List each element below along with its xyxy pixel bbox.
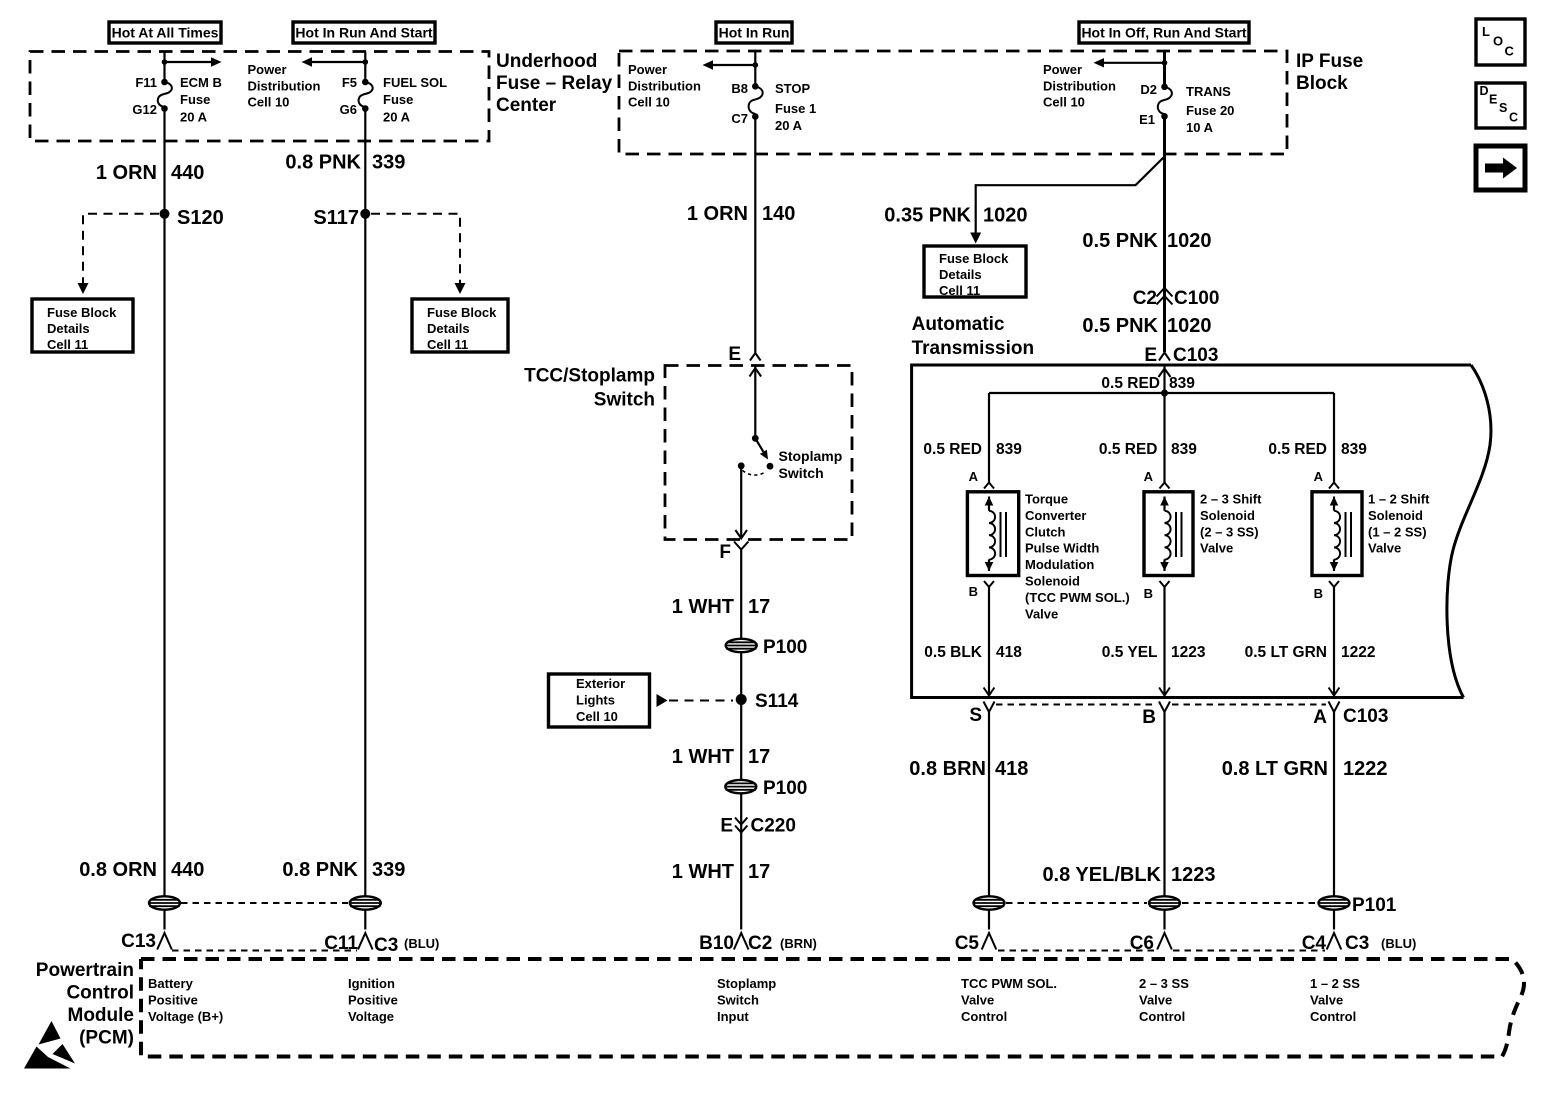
pin C13 at PCM [121,931,172,952]
label torque converter clutch solenoid [1025,492,1130,622]
svg-text:C11: C11 [324,933,358,954]
svg-text:Cell 10: Cell 10 [628,95,670,110]
svg-text:2 – 3 SS: 2 – 3 SS [1139,976,1189,991]
svg-text:Power: Power [248,62,287,77]
fuse STOP B8/C7 [731,81,816,133]
svg-text:Exterior: Exterior [576,676,625,691]
wire TCC solenoid return [984,587,995,696]
svg-text:0.5 LT GRN: 0.5 LT GRN [1245,644,1327,661]
svg-text:E: E [1144,345,1157,366]
svg-text:P100: P100 [763,637,807,658]
svg-text:L: L [1482,24,1490,39]
solenoid 1-2 shift coil [1312,492,1362,576]
node tap arrow left on W4 [1094,58,1168,67]
svg-text:Lights: Lights [576,693,615,708]
svg-text:Valve: Valve [1025,606,1058,621]
wire label 0.8 BRN 418 [909,758,1028,780]
wire 2-3 solenoid return [1159,587,1170,696]
svg-text:E: E [1489,93,1497,107]
TCC/Stoplamp switch dashed box [665,366,852,540]
svg-text:Clutch: Clutch [1025,524,1066,539]
bus inside transmission [989,390,1334,397]
svg-text:S120: S120 [177,207,224,229]
header box: Hot In Run [716,22,792,43]
svg-text:0.8 BRN: 0.8 BRN [909,758,986,780]
svg-text:1 ORN: 1 ORN [96,162,157,184]
label 1-2 shift solenoid [1368,492,1430,556]
svg-text:C3: C3 [374,935,398,956]
wire W3 lower vertical [740,550,742,930]
svg-text:Solenoid: Solenoid [1368,508,1423,523]
svg-text:C220: C220 [751,816,796,837]
svg-text:Fuse Block: Fuse Block [427,305,497,320]
svg-text:E: E [720,816,733,837]
svg-text:0.5 RED: 0.5 RED [1101,375,1160,392]
icon box forward arrow [1476,146,1525,190]
svg-text:Valve: Valve [1200,541,1233,556]
svg-text:Positive: Positive [148,993,198,1008]
splice S120 [160,207,224,229]
svg-text:S114: S114 [755,691,799,712]
svg-text:140: 140 [762,203,795,225]
svg-text:Switch: Switch [779,465,824,481]
svg-text:A: A [969,469,979,484]
svg-text:D2: D2 [1140,82,1157,97]
svg-text:Fuse: Fuse [383,92,413,107]
label Underhood Fuse-Relay Center [496,51,613,116]
wire label 0.5 PNK 1020 (upper) [1082,230,1211,252]
svg-text:20 A: 20 A [180,110,208,125]
svg-text:339: 339 [372,152,405,174]
wire W4 vertical (TRANS fuse feed) [1163,51,1166,352]
solenoid 2-3 shift coil [1144,492,1193,576]
label Power Distribution Cell 10 (middle) [628,62,701,110]
splice S117 [313,207,370,229]
svg-text:Ignition: Ignition [348,976,395,991]
svg-text:17: 17 [748,746,770,768]
svg-text:Fuse: Fuse [180,92,210,107]
wire label 0.5 PNK 1020 (lower) [1082,315,1211,337]
svg-text:Converter: Converter [1025,508,1086,523]
fuse block details cell 11 box (middle) [924,246,1026,298]
svg-text:0.5 BLK: 0.5 BLK [924,644,983,661]
svg-text:TRANS: TRANS [1186,84,1231,99]
svg-text:A: A [1314,469,1324,484]
svg-text:0.8 ORN: 0.8 ORN [79,859,157,881]
svg-text:G12: G12 [132,102,157,117]
svg-text:C: C [1505,44,1515,59]
pin B TCC solenoid [969,581,994,599]
node tap arrow left on W2 [302,57,369,66]
svg-text:Underhood: Underhood [496,51,597,72]
svg-text:20 A: 20 A [383,110,411,125]
svg-text:Power: Power [628,62,667,77]
header box: Hot At All Times [109,22,221,43]
svg-text:839: 839 [996,441,1022,458]
pin B 2-3 solenoid [1144,581,1170,601]
label Power Distribution Cell 10 (left) [248,62,321,110]
svg-text:839: 839 [1171,441,1197,458]
in-line connector C2 C100 [1133,288,1220,309]
wire TCC solenoid feed [988,393,990,483]
exterior lights cell 10 box [549,674,734,727]
wire label 0.5 YEL 1223 [1102,644,1206,661]
node tap arrow right on W1 [162,57,222,66]
pass-through grommet P100 (1) [726,637,808,658]
svg-text:Module: Module [68,1005,135,1026]
ESD sensitivity symbol [24,1021,75,1069]
svg-text:Cell 11: Cell 11 [47,337,88,352]
svg-text:Valve: Valve [1310,993,1343,1008]
svg-text:Distribution: Distribution [1043,78,1116,93]
pass-through grommet pair at PCM harness [149,896,381,909]
wire label 1 WHT 17 (2) [672,746,770,768]
svg-text:TCC/Stoplamp: TCC/Stoplamp [524,366,655,387]
svg-text:B10: B10 [699,933,734,954]
svg-text:0.8 LT GRN: 0.8 LT GRN [1222,758,1328,780]
wire 1-2 solenoid feed [1333,393,1335,483]
svg-text:Voltage: Voltage [348,1009,394,1024]
in-line connector E C220 [720,816,796,837]
connector E C103 at transmission [1144,345,1218,366]
PCM pin label 1-2 SS valve control [1310,976,1360,1024]
svg-text:Details: Details [427,321,470,336]
underhood fuse-relay center dashed box [30,52,489,142]
svg-text:839: 839 [1341,441,1367,458]
svg-text:S: S [1499,101,1507,115]
svg-text:Switch: Switch [717,993,759,1008]
dashed branch S120 to fuse block details [78,214,160,294]
wire label 0.5 RED 839 (left) [923,441,1022,458]
fuse FUEL SOL F5/G6 [340,75,447,125]
svg-text:(PCM): (PCM) [79,1028,134,1049]
pin A TCC solenoid [969,469,994,489]
svg-text:Stoplamp: Stoplamp [779,448,843,464]
IP fuse block dashed box [619,51,1287,154]
fuse ECM B F11/G12 [132,75,221,125]
pin A 1-2 solenoid [1314,469,1339,489]
svg-text:O: O [1493,34,1503,49]
svg-text:20 A: 20 A [775,118,803,133]
wire 1-2 solenoid return [1329,587,1340,696]
pass-through grommet P101 row [974,895,1397,916]
wire label 1 WHT 17 (1) [672,596,770,618]
svg-text:C2: C2 [748,933,772,954]
svg-text:1020: 1020 [983,205,1028,227]
svg-text:Valve: Valve [1368,541,1401,556]
connector F below TCC box [719,542,748,564]
svg-text:(2 – 3 SS): (2 – 3 SS) [1200,524,1259,539]
wire label 0.8 LT GRN 1222 [1222,758,1388,780]
label 2-3 shift solenoid [1200,492,1262,556]
svg-text:0.5 RED: 0.5 RED [1268,441,1327,458]
svg-text:Transmission: Transmission [912,338,1035,359]
label Automatic Transmission [912,314,1035,359]
wire label 0.5 RED 839 (top) [1101,375,1195,392]
header box: Hot In Off, Run And Start [1079,22,1249,43]
label TCC/Stoplamp Switch [524,366,655,411]
svg-text:418: 418 [995,758,1028,780]
svg-text:1 ORN: 1 ORN [687,203,748,225]
svg-text:STOP: STOP [775,81,810,96]
wire label 0.8 YEL/BLK 1223 [1042,864,1215,886]
wire label 1 WHT 17 (3) [672,861,770,883]
svg-text:Distribution: Distribution [628,78,701,93]
svg-text:Hot In Off, Run And Start: Hot In Off, Run And Start [1081,25,1246,41]
svg-text:D: D [1480,84,1489,98]
svg-text:P101: P101 [1352,895,1397,916]
svg-text:Details: Details [47,321,90,336]
svg-text:G6: G6 [340,102,357,117]
svg-text:Valve: Valve [1139,993,1172,1008]
svg-text:Control: Control [66,983,134,1004]
svg-text:17: 17 [748,861,770,883]
svg-text:Solenoid: Solenoid [1200,508,1255,523]
label Power Distribution Cell 10 (right) [1043,62,1116,110]
svg-text:Powertrain: Powertrain [36,960,134,981]
wire W1 vertical (ECM B feed) [163,52,165,930]
svg-text:0.5 RED: 0.5 RED [1099,441,1158,458]
pass-through grommet P100 (2) [725,778,807,799]
svg-text:(BRN): (BRN) [780,936,817,951]
svg-text:C5: C5 [955,933,980,954]
wire inside TCC box upper with arrow up [750,366,762,439]
svg-text:440: 440 [171,859,204,881]
svg-text:A: A [1313,707,1327,728]
svg-text:Power: Power [1043,62,1082,77]
PCM pin label ignition positive voltage [348,976,398,1024]
svg-text:Center: Center [496,95,557,116]
icon box DESC [1476,83,1525,128]
wire TCC PWM SOL valve control to PCM [988,712,990,930]
svg-text:Hot At All Times: Hot At All Times [112,25,219,41]
wire label 0.5 RED 839 (mid) [1099,441,1197,458]
connector row S B A C103 below transmission [969,702,1388,729]
wire label 1 ORN 440 [96,162,205,184]
svg-text:C: C [1509,111,1518,125]
svg-text:Hot In Run And Start: Hot In Run And Start [295,25,432,41]
svg-text:Cell 10: Cell 10 [576,709,618,724]
svg-text:1222: 1222 [1343,758,1388,780]
svg-text:B: B [969,584,978,599]
pin B10 C2 (BRN) at PCM [699,933,817,954]
pin B 1-2 solenoid [1314,581,1339,601]
svg-text:F: F [719,542,731,563]
svg-text:E: E [728,344,741,365]
svg-text:S117: S117 [313,207,359,229]
node tap arrow left on W3 [703,60,759,69]
svg-text:1 WHT: 1 WHT [672,596,734,618]
svg-text:17: 17 [748,596,770,618]
svg-text:(1 – 2 SS): (1 – 2 SS) [1368,524,1427,539]
wire W2 vertical (FUEL SOL feed) [364,52,366,930]
svg-text:Modulation: Modulation [1025,557,1094,572]
svg-text:1 WHT: 1 WHT [672,746,734,768]
svg-text:Pulse Width: Pulse Width [1025,541,1099,556]
wire branch 0.35 PNK to fuse block details [970,157,1164,244]
svg-text:Input: Input [717,1009,749,1024]
svg-text:0.5 YEL: 0.5 YEL [1102,644,1158,661]
svg-text:FUEL SOL: FUEL SOL [383,75,447,90]
svg-text:TCC PWM SOL.: TCC PWM SOL. [961,976,1057,991]
wire from switch to F with arrow down [735,466,747,539]
fuse TRANS D2/E1 [1139,82,1234,135]
svg-text:1020: 1020 [1167,315,1212,337]
svg-text:0.5 PNK: 0.5 PNK [1082,315,1158,337]
PCM dashed box with torn right edge [141,959,1524,1057]
connector pin dashed links at PCM [172,950,1325,952]
fuse block details cell 11 box (left) [32,299,133,352]
wire label 0.8 PNK 339 [285,152,405,174]
label IP Fuse Block [1296,51,1363,94]
wire label 0.5 RED 839 (right) [1268,441,1367,458]
svg-text:Voltage (B+): Voltage (B+) [148,1009,223,1024]
svg-text:0.8 PNK: 0.8 PNK [282,859,358,881]
svg-text:Block: Block [1296,73,1348,94]
svg-text:IP Fuse: IP Fuse [1296,51,1363,72]
svg-text:C100: C100 [1174,288,1219,309]
svg-text:C103: C103 [1343,706,1388,727]
PCM pin label stoplamp switch input [717,976,776,1024]
solenoid TCC PWM coil [967,492,1018,576]
svg-text:Valve: Valve [961,993,994,1008]
connector E at TCC switch [728,344,760,365]
svg-text:Automatic: Automatic [912,314,1005,335]
svg-text:B: B [1314,586,1323,601]
pin C11 C3 (BLU) at PCM [324,933,439,956]
svg-text:Torque: Torque [1025,492,1068,507]
PCM pin label TCC PWM SOL valve control [961,976,1057,1024]
svg-text:Battery: Battery [148,976,194,991]
svg-text:B: B [1144,586,1153,601]
svg-text:F11: F11 [135,75,157,90]
svg-text:(BLU): (BLU) [404,936,439,951]
svg-text:(TCC PWM SOL.): (TCC PWM SOL.) [1025,590,1130,605]
svg-text:1222: 1222 [1341,644,1375,661]
svg-text:10 A: 10 A [1186,120,1214,135]
svg-text:C3: C3 [1345,933,1369,954]
svg-text:Fuse Block: Fuse Block [47,305,117,320]
splice S114 [736,691,799,712]
svg-text:1 – 2 Shift: 1 – 2 Shift [1368,492,1430,507]
svg-text:0.5 PNK: 0.5 PNK [1082,230,1158,252]
svg-text:ECM B: ECM B [180,75,222,90]
fuse block details cell 11 box (right) [412,299,508,352]
svg-text:1 – 2 SS: 1 – 2 SS [1310,976,1360,991]
svg-text:1020: 1020 [1167,230,1212,252]
svg-text:418: 418 [996,644,1022,661]
svg-text:0.35 PNK: 0.35 PNK [884,205,971,227]
svg-text:E1: E1 [1139,112,1155,127]
svg-text:Fuse 1: Fuse 1 [775,101,816,116]
svg-text:1223: 1223 [1171,864,1216,886]
svg-text:C2: C2 [1133,288,1157,309]
svg-text:339: 339 [372,859,405,881]
svg-text:C13: C13 [121,931,156,952]
svg-text:Cell 10: Cell 10 [248,95,290,110]
pin C5 at PCM [955,933,997,954]
svg-text:Fuse 20: Fuse 20 [1186,103,1234,118]
wire label 0.35 PNK 1020 [884,205,1027,227]
wire label 0.5 BLK 418 [924,644,1022,661]
svg-text:Positive: Positive [348,993,398,1008]
wire 2-3 SS valve control to PCM [1163,712,1165,930]
svg-text:2 – 3 Shift: 2 – 3 Shift [1200,492,1262,507]
svg-text:0.8 PNK: 0.8 PNK [285,152,361,174]
wire label 0.5 LT GRN 1222 [1245,644,1376,661]
svg-text:Fuse – Relay: Fuse – Relay [496,73,613,94]
svg-text:Cell 11: Cell 11 [427,337,468,352]
svg-text:C103: C103 [1173,345,1218,366]
svg-text:Cell 10: Cell 10 [1043,95,1085,110]
stoplamp switch [738,435,842,481]
wire W3 vertical (STOP fuse feed) [754,51,756,353]
svg-text:0.8 YEL/BLK: 0.8 YEL/BLK [1042,864,1161,886]
svg-text:P100: P100 [763,778,807,799]
label Powertrain Control Module (PCM) [36,960,134,1049]
svg-text:Hot In Run: Hot In Run [719,25,790,41]
svg-text:0.5 RED: 0.5 RED [923,441,982,458]
pin C6 at PCM [1130,933,1172,954]
wire 1-2 SS valve control to PCM [1333,712,1335,930]
svg-text:(BLU): (BLU) [1381,936,1416,951]
svg-text:1 WHT: 1 WHT [672,861,734,883]
wire 2-3 solenoid feed [1163,393,1165,483]
pin C4 C3 (BLU) at PCM [1302,933,1417,954]
svg-text:A: A [1144,469,1154,484]
svg-text:Control: Control [1139,1009,1185,1024]
svg-text:S: S [969,705,982,726]
svg-text:Control: Control [961,1009,1007,1024]
PCM pin label battery positive voltage [148,976,223,1024]
wire label 0.8 ORN 440 [79,859,204,881]
svg-text:Switch: Switch [594,390,655,411]
svg-text:B8: B8 [731,81,748,96]
svg-text:C7: C7 [731,111,748,126]
icon box LOC [1476,19,1525,65]
svg-text:839: 839 [1169,375,1195,392]
wire into transmission with arrow up [1159,365,1171,393]
svg-text:B: B [1142,707,1156,728]
svg-text:Cell 11: Cell 11 [939,283,980,298]
svg-text:440: 440 [171,162,204,184]
svg-text:Solenoid: Solenoid [1025,574,1080,589]
pin A 2-3 solenoid [1144,469,1170,489]
svg-text:Control: Control [1310,1009,1356,1024]
svg-text:F5: F5 [342,75,357,90]
header box: Hot In Run And Start [293,22,435,43]
automatic transmission box with torn right edge [912,365,1491,698]
svg-text:Fuse Block: Fuse Block [939,251,1009,266]
svg-text:Stoplamp: Stoplamp [717,976,776,991]
PCM pin label 2-3 SS valve control [1139,976,1189,1024]
svg-text:1223: 1223 [1171,644,1206,661]
wire label 1 ORN 140 [687,203,796,225]
svg-text:Details: Details [939,267,982,282]
dashed branch S117 to fuse block details [371,214,466,294]
wire label 0.8 PNK 339 (lower) [282,859,405,881]
svg-text:Distribution: Distribution [248,78,321,93]
